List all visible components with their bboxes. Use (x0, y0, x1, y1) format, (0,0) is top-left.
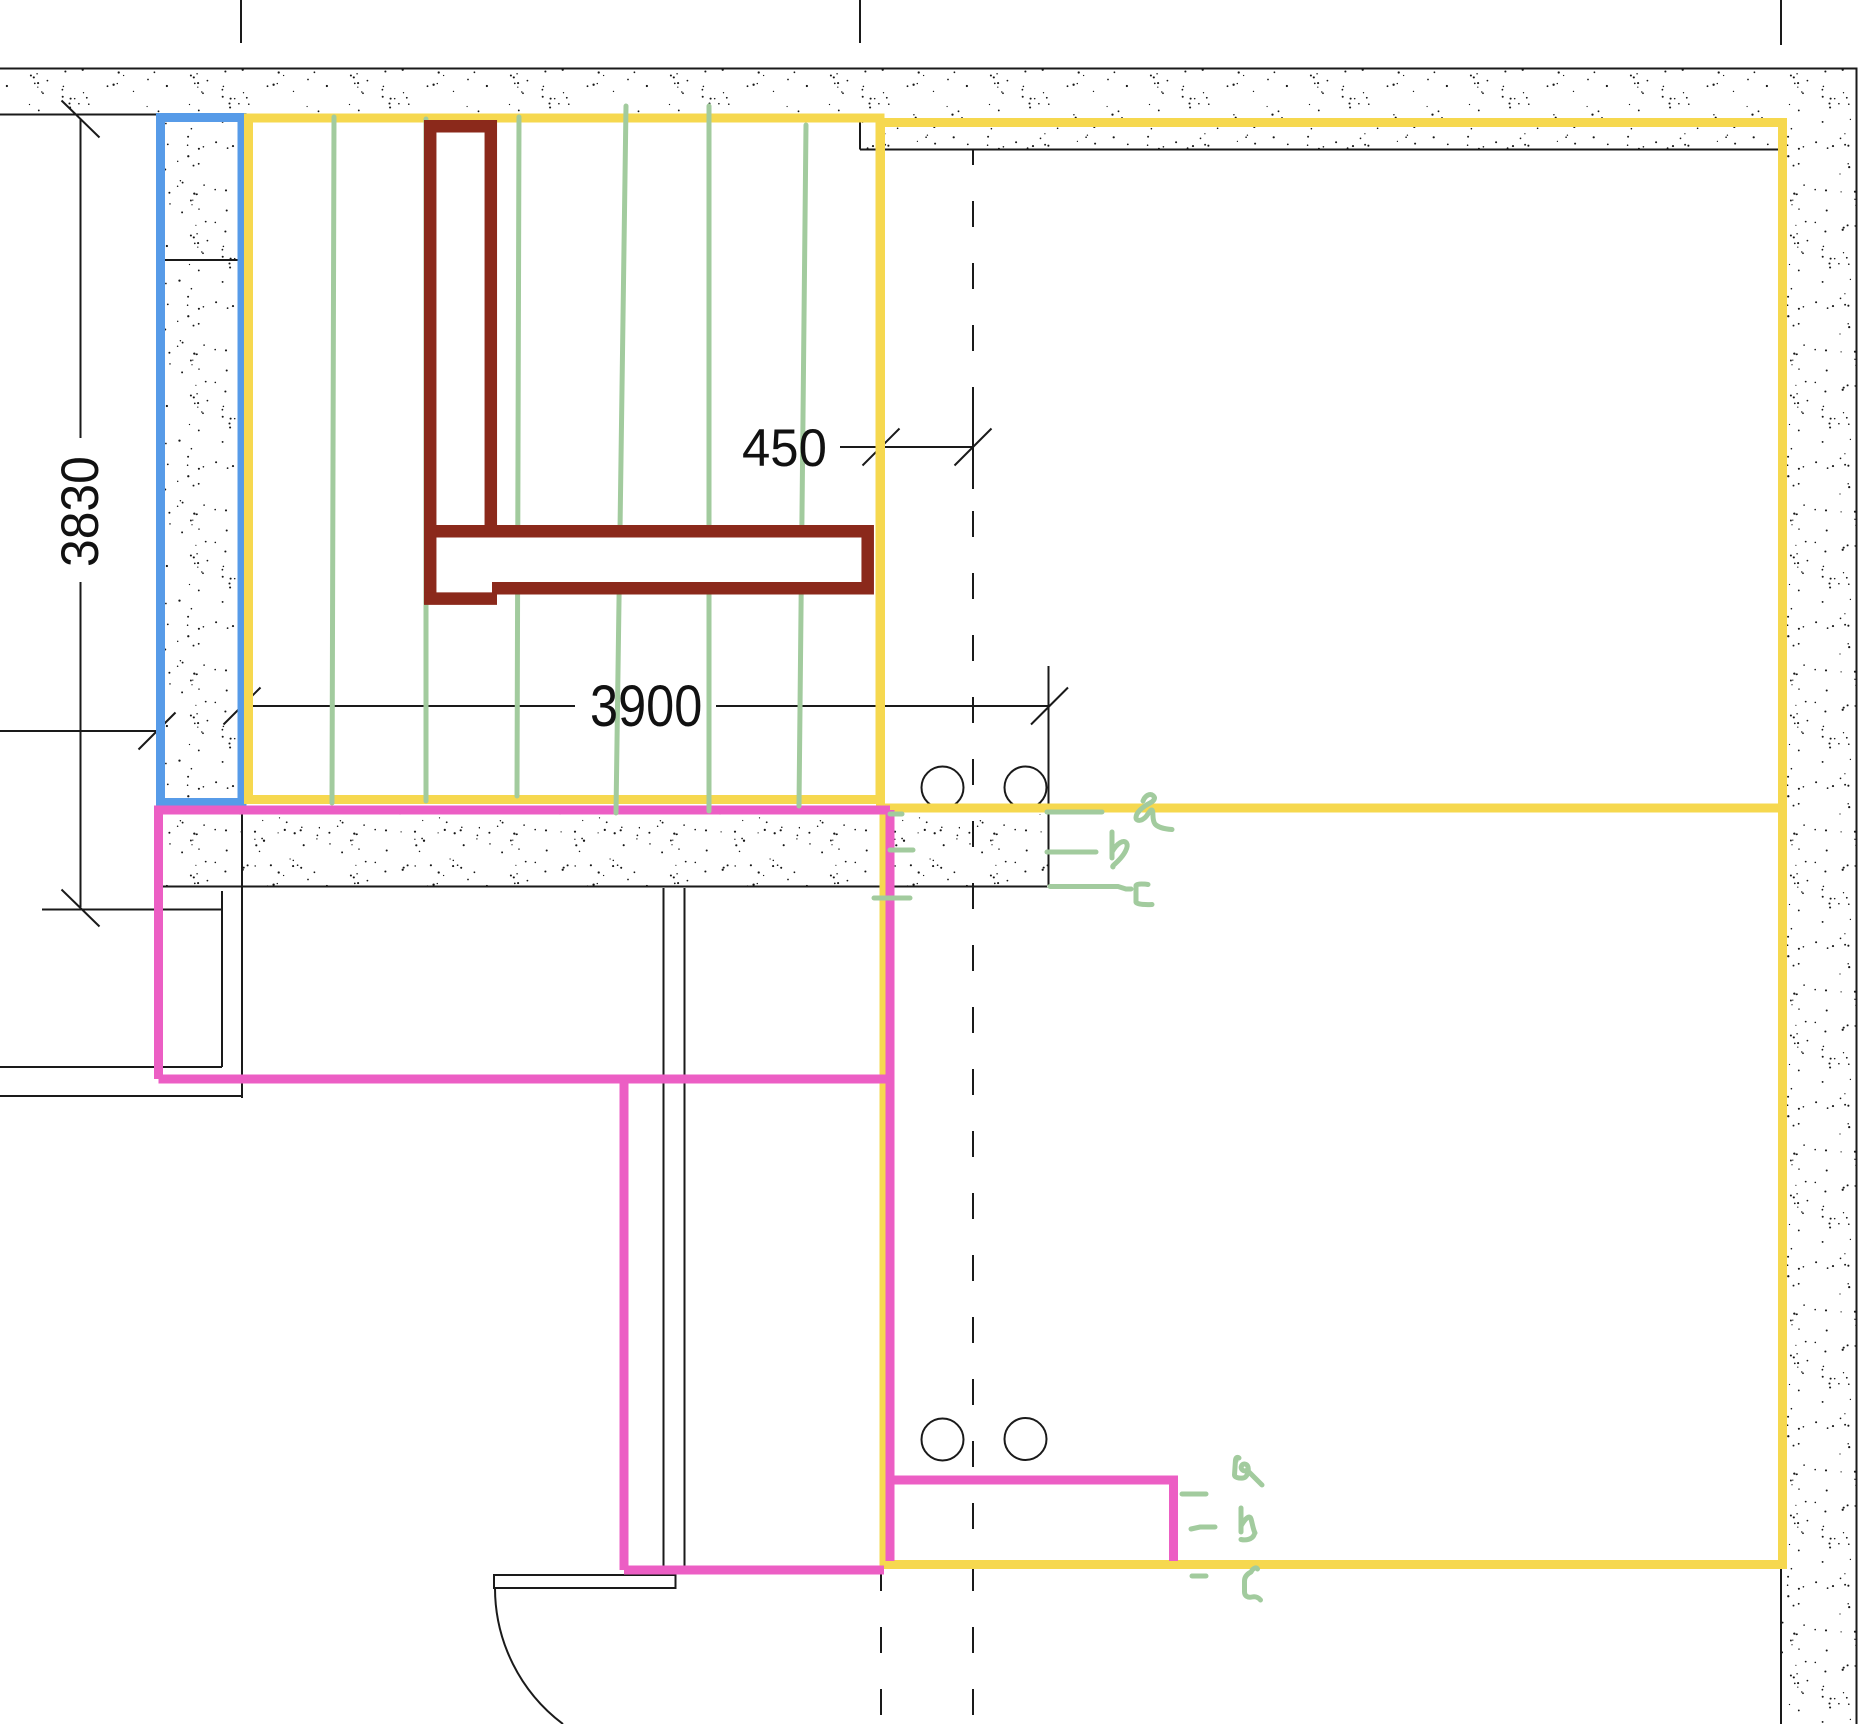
svg-text:3830: 3830 (50, 456, 110, 567)
svg-text:3900: 3900 (590, 674, 702, 739)
svg-text:450: 450 (742, 419, 827, 478)
